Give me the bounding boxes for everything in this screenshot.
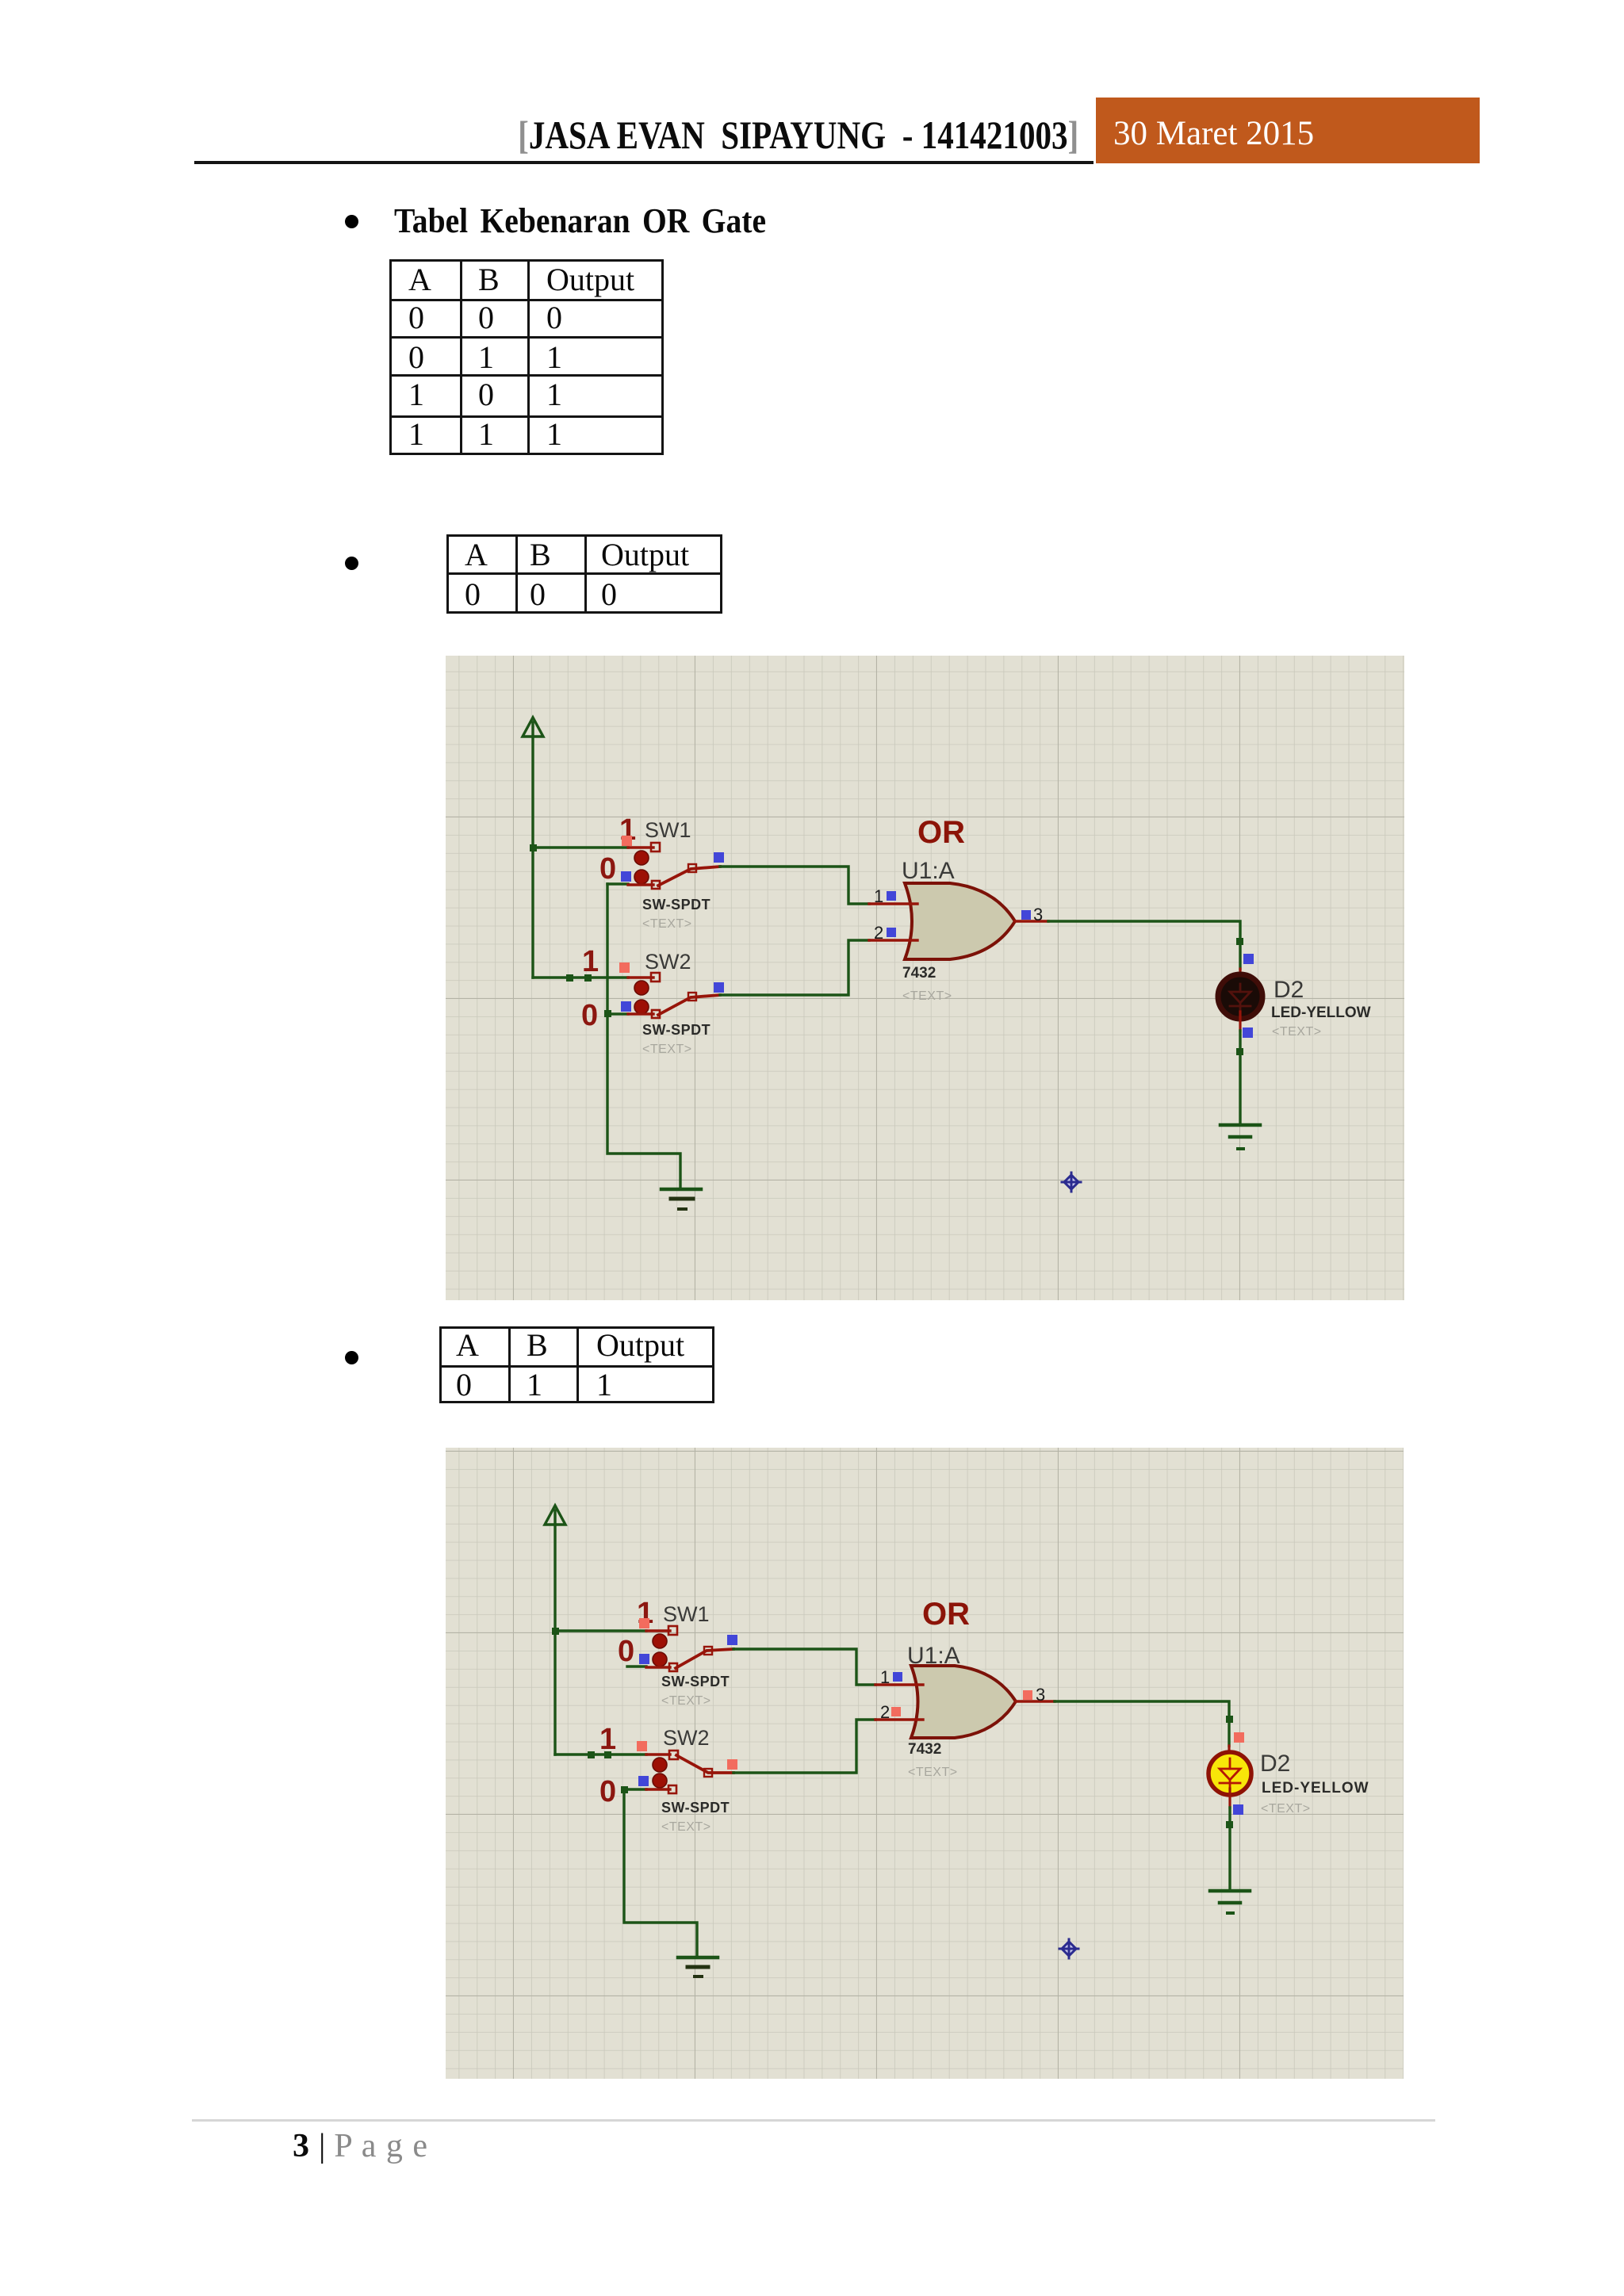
svg-text:1: 1 <box>599 1723 616 1756</box>
pin 3 stub <box>1016 1700 1055 1702</box>
pin 3 stub <box>1015 920 1048 922</box>
SW1 handle (blue) <box>639 1654 649 1664</box>
junction above LED <box>1236 938 1243 945</box>
svg-text:SW-SPDT: SW-SPDT <box>642 897 710 913</box>
ground symbol (LED side) <box>1210 1891 1250 1913</box>
wire gate output to LED <box>1048 921 1240 969</box>
or-gate U1:A body <box>905 883 1015 959</box>
svg-text:0: 0 <box>618 1635 634 1668</box>
wire switch poles vertical <box>606 884 608 1014</box>
svg-text:<TEXT>: <TEXT> <box>642 1043 692 1056</box>
junction SW2 pole / ground branch <box>604 1010 611 1017</box>
pin 1 handle (blue) <box>887 891 896 901</box>
svg-text:SW-SPDT: SW-SPDT <box>642 1022 710 1038</box>
pin 3 handle (red, logic 1) <box>1023 1690 1032 1700</box>
LED D2 anode pin <box>1239 969 1241 983</box>
svg-text:1: 1 <box>582 945 599 978</box>
header title <box>317 112 1078 158</box>
junction dots on SW2 throw wire <box>588 1751 595 1758</box>
schematic grid background <box>446 1448 1404 2079</box>
wire gate output to LED <box>1055 1701 1229 1746</box>
junction SW2 pole / ground branch <box>621 1786 628 1793</box>
svg-text:7432: 7432 <box>908 1741 941 1758</box>
wire power rail vertical <box>553 1525 556 1755</box>
svg-text:7432: 7432 <box>902 965 936 982</box>
or-gate U1:A body <box>911 1666 1016 1738</box>
junction power rail / SW1 wire <box>530 844 537 851</box>
svg-text:0: 0 <box>599 1775 616 1808</box>
footer rule <box>192 2119 1435 2122</box>
circuit screenshot 1: OR gate, A=0 B=0, LED off <box>446 656 1404 1300</box>
pin 1 stub <box>875 1683 923 1686</box>
svg-text:3: 3 <box>1033 905 1043 924</box>
junction power rail / SW1 wire <box>552 1628 559 1635</box>
svg-text:LED-YELLOW: LED-YELLOW <box>1271 1004 1371 1021</box>
wire power rail vertical <box>531 737 534 978</box>
SW1 output handle (blue) <box>727 1635 737 1645</box>
LED D2 anode pin <box>1228 1746 1230 1760</box>
truth table full <box>389 259 664 455</box>
svg-text:2: 2 <box>880 1702 890 1722</box>
footer text <box>293 2127 428 2165</box>
svg-text:3: 3 <box>1036 1685 1045 1705</box>
origin marker crosshair <box>1059 1939 1078 1958</box>
wire SW2 pole to ground <box>624 1789 697 1957</box>
LED D2 cathode pin <box>1239 1012 1241 1031</box>
svg-text:<TEXT>: <TEXT> <box>642 917 692 931</box>
svg-text:<TEXT>: <TEXT> <box>1272 1025 1322 1039</box>
svg-text:SW2: SW2 <box>663 1726 710 1750</box>
LED D2 body (off, dark) <box>1218 974 1262 1019</box>
svg-text:D2: D2 <box>1260 1751 1290 1777</box>
wire SW1 output to gate pin 1 <box>720 867 869 904</box>
wire SW1 output to gate pin 1 <box>733 1649 875 1685</box>
svg-text:<TEXT>: <TEXT> <box>661 1694 711 1708</box>
wire LED to ground <box>1228 1808 1231 1890</box>
ground symbol (switch side) <box>661 1189 701 1209</box>
LED D2 cathode handle (blue) <box>1243 1027 1253 1038</box>
LED D2 body (lit yellow) <box>1208 1752 1251 1795</box>
svg-text:0: 0 <box>599 852 616 886</box>
junction above LED <box>1226 1716 1233 1723</box>
pin 2 handle (red, logic 1) <box>891 1707 901 1716</box>
ground symbol (LED side) <box>1220 1125 1260 1149</box>
svg-text:OR: OR <box>922 1597 970 1632</box>
svg-text:1: 1 <box>880 1667 890 1687</box>
svg-text:U1:A: U1:A <box>902 858 955 884</box>
svg-text:SW-SPDT: SW-SPDT <box>661 1800 730 1816</box>
junction below LED <box>1226 1821 1233 1828</box>
junction below LED <box>1236 1048 1243 1055</box>
SW2 output handle (red, logic 1) <box>727 1759 737 1770</box>
SW2 handle (blue) <box>621 1001 631 1012</box>
svg-text:<TEXT>: <TEXT> <box>902 989 952 1003</box>
svg-text:2: 2 <box>874 923 883 943</box>
svg-text:SW1: SW1 <box>663 1602 710 1626</box>
SW1 handle (blue) <box>621 871 631 882</box>
svg-text:D2: D2 <box>1274 977 1304 1003</box>
SW1 state marker <box>622 836 632 846</box>
wire SW1 top throw <box>533 846 628 848</box>
truth table row 0 1 1 <box>439 1326 714 1403</box>
switch SW2 (SW-SPDT) <box>607 973 720 1018</box>
wire SW2 output to gate pin 2 <box>720 940 869 995</box>
origin marker crosshair <box>1062 1173 1081 1192</box>
svg-text:<TEXT>: <TEXT> <box>908 1766 958 1779</box>
bullet 1 <box>345 215 358 228</box>
switch SW2 (SW-SPDT, thrown to 1) <box>624 1751 733 1793</box>
svg-text:1: 1 <box>874 886 883 906</box>
bullet 3 <box>345 1351 358 1364</box>
pin 1 stub <box>869 902 917 905</box>
LED D2 anode handle (red, logic 1) <box>1234 1732 1244 1743</box>
SW1 state marker <box>639 1618 649 1628</box>
svg-text:<TEXT>: <TEXT> <box>1261 1802 1311 1816</box>
SW2 state marker <box>619 962 630 973</box>
switch SW1 (SW-SPDT) <box>627 1626 733 1671</box>
wire SW2 output to gate pin 2 <box>733 1720 875 1773</box>
svg-text:OR: OR <box>917 815 965 850</box>
LED D2 cathode handle (blue) <box>1233 1804 1243 1815</box>
ground symbol (switch side) <box>678 1957 718 1976</box>
power symbol (+5V up-arrow) <box>545 1506 565 1525</box>
svg-text:LED-YELLOW: LED-YELLOW <box>1262 1780 1369 1797</box>
SW1 output handle (blue) <box>714 852 724 863</box>
pin 1 handle (blue) <box>893 1672 902 1682</box>
pin 3 handle (blue) <box>1021 910 1031 920</box>
wire SW poles to ground <box>607 1014 680 1188</box>
SW2 handle (blue) <box>638 1776 649 1786</box>
wire LED to ground <box>1239 1031 1241 1124</box>
svg-text:<TEXT>: <TEXT> <box>661 1820 711 1834</box>
junction dots on SW2 throw wire <box>566 974 573 982</box>
header date box <box>1096 98 1480 163</box>
LED D2 anode handle (blue) <box>1243 954 1254 964</box>
switch SW1 (SW-SPDT) <box>607 843 720 889</box>
LED D2 cathode pin <box>1228 1789 1231 1808</box>
schematic grid background <box>446 656 1404 1300</box>
header rule <box>194 161 1094 164</box>
truth table row 0 0 0 <box>446 534 722 614</box>
svg-text:SW1: SW1 <box>645 818 691 842</box>
svg-text:SW2: SW2 <box>645 950 691 974</box>
wire SW2 throw from rail <box>533 976 628 978</box>
wire SW1 top throw <box>555 1629 646 1632</box>
pin 2 handle (blue) <box>887 928 896 937</box>
pin 2 stub <box>869 939 917 941</box>
pin 2 stub <box>875 1718 923 1720</box>
SW2 state marker <box>637 1741 647 1751</box>
circuit screenshot 2: OR gate, A=0 B=1, LED on <box>446 1448 1404 2079</box>
bullet 2 <box>345 557 358 570</box>
SW2 output handle (blue) <box>714 982 724 993</box>
power symbol (+5V up-arrow) <box>523 717 543 737</box>
svg-text:SW-SPDT: SW-SPDT <box>661 1674 730 1689</box>
svg-text:0: 0 <box>581 999 598 1032</box>
wire SW2 top throw from rail <box>555 1753 646 1755</box>
